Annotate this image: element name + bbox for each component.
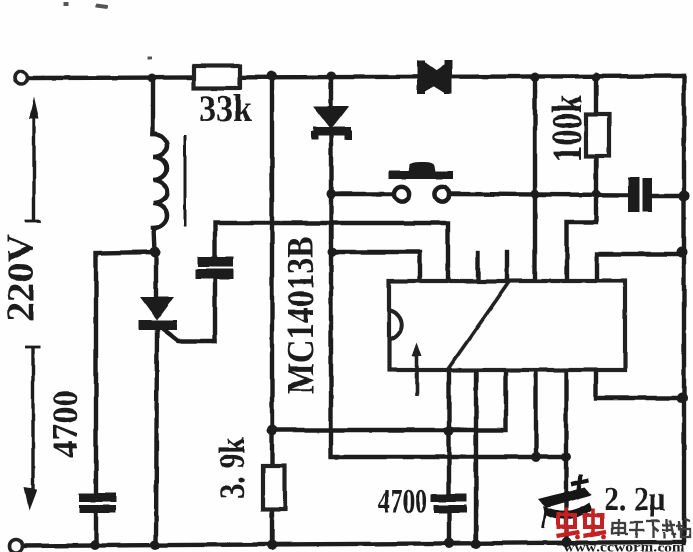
svg-text:220V: 220V <box>0 233 42 322</box>
svg-text:4700: 4700 <box>378 481 427 521</box>
svg-text:100k: 100k <box>545 95 591 162</box>
svg-text:33k: 33k <box>199 88 253 130</box>
svg-text:www.ccworm.com: www.ccworm.com <box>563 540 686 552</box>
svg-text:4700: 4700 <box>45 390 85 458</box>
svg-text:2. 2µ: 2. 2µ <box>604 481 666 518</box>
svg-text:3. 9k: 3. 9k <box>212 437 252 499</box>
svg-text:MC14013B: MC14013B <box>280 236 322 394</box>
